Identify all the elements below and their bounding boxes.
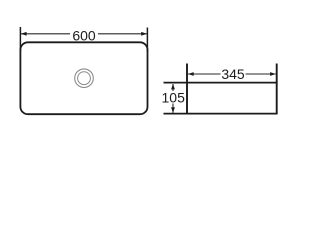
dimension line 105 upper segment [172, 84, 174, 91]
svg-text:105: 105 [162, 90, 186, 106]
side view top edge with left extension [164, 82, 278, 84]
svg-text:345: 345 [221, 66, 245, 82]
arrowhead 600 right [141, 32, 147, 36]
arrowhead 600 left [21, 32, 27, 36]
arrowhead 105 down [171, 107, 175, 113]
dimension line 600 left segment [21, 33, 70, 35]
dimension line 600 right segment [98, 33, 147, 35]
side view right edge and extension above [276, 64, 278, 114]
extension line right of 600 dimension [146, 28, 148, 52]
extension line left of 600 dimension [19, 27, 21, 51]
side view left edge and extension above [186, 64, 188, 114]
drain circle inner [78, 72, 91, 85]
arrowhead 345 left [188, 72, 194, 76]
dimension line 105 lower segment [172, 104, 174, 113]
drain circle outer [75, 69, 94, 88]
svg-text:600: 600 [72, 27, 96, 43]
dimension line 345 left segment [188, 73, 221, 75]
arrowhead 105 up [171, 84, 175, 90]
dimension line 345 right segment [246, 73, 276, 75]
side view bottom edge with left extension [164, 113, 278, 115]
arrowhead 345 right [270, 72, 276, 76]
basin top view outline [20, 42, 147, 114]
